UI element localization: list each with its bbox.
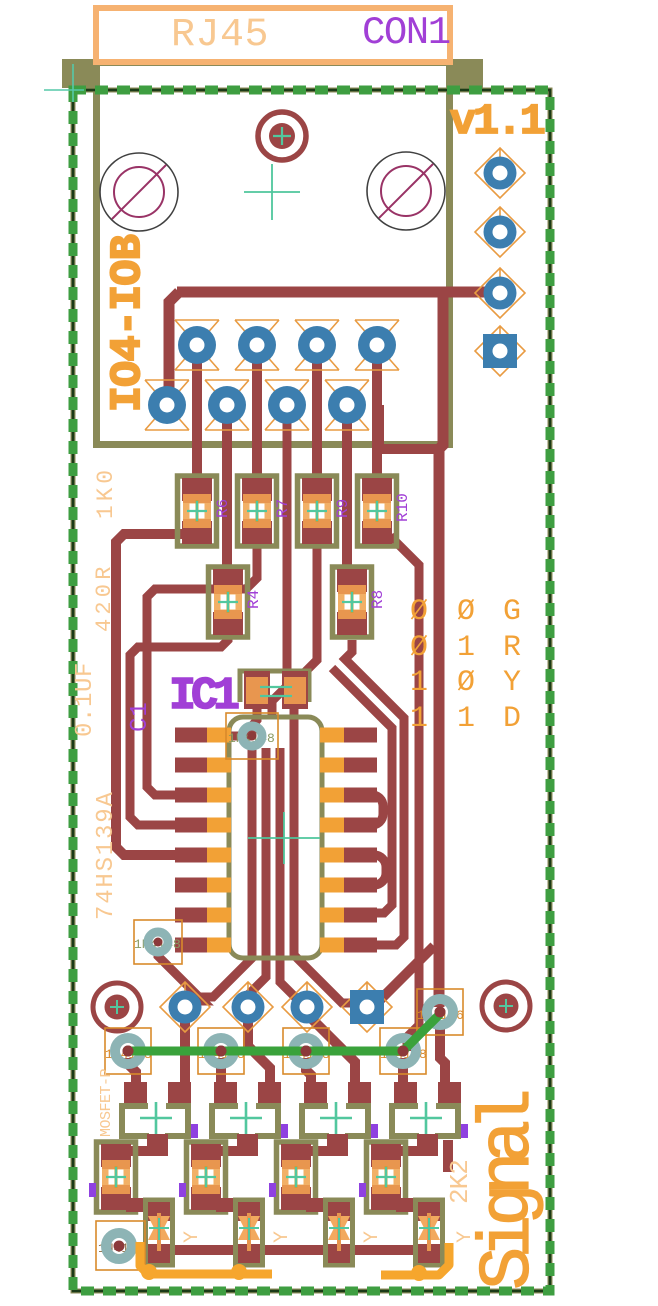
truth table row 2 [410, 631, 521, 665]
IC1 pads left [175, 728, 231, 953]
diode D6 bottom left [96, 1221, 145, 1270]
connector CON1 RJ45 courtyard (orange) [96, 8, 450, 62]
mounting hole H1 [100, 153, 178, 231]
LED LED4 [416, 1200, 443, 1265]
node pad A [160, 982, 210, 1032]
node cross [244, 164, 300, 220]
node pad C [282, 982, 332, 1032]
wire pad6 to R4 [222, 405, 232, 572]
wire R9 to C1 [303, 545, 317, 674]
connector RJ45 pad 3 [295, 320, 339, 370]
svg-text:D: D [503, 702, 521, 736]
truth table row 4 [410, 702, 521, 736]
mounting hole H2 [367, 152, 445, 230]
wire Q4 stub [443, 1140, 453, 1172]
truth table row 3 [410, 666, 521, 700]
fiducial ring pad top [258, 112, 306, 160]
connector RJ45 pad 4 [355, 320, 399, 370]
svg-text:1: 1 [410, 666, 428, 700]
svg-text:R8: R8 [369, 590, 387, 609]
svg-text:C1: C1 [127, 701, 154, 732]
svg-text:R: R [503, 631, 521, 665]
wire pad to Q2 [248, 1007, 270, 1098]
header pin 3 [475, 268, 525, 318]
wire R7 to IC pin3 [147, 545, 257, 795]
node blobs on orange wire [141, 1264, 427, 1281]
wire IC U2 [350, 795, 383, 825]
wire bus to right column pad [439, 292, 443, 1007]
wire bus horizontal [177, 287, 497, 298]
wire channel A [187, 748, 252, 997]
wire R8 to IC pin7 [345, 640, 404, 945]
svg-text:R6: R6 [214, 499, 232, 518]
wire bottom layer orange 1 [140, 1242, 272, 1274]
resistor R4 [209, 567, 264, 637]
wire pad7 to R8 [342, 405, 352, 572]
connector RJ45 pad 6 [205, 380, 249, 430]
resistor R8 [333, 567, 388, 637]
resistor R3 2K2 [179, 1142, 226, 1212]
connector RJ45 pad 5 [145, 380, 189, 430]
resistor R9 [298, 476, 353, 546]
resistor R2 2K2 [89, 1142, 136, 1212]
capacitor C1 [240, 671, 309, 709]
fiducial ring pad bottom left [93, 983, 141, 1031]
wire to square pad [370, 946, 434, 999]
svg-text:Signal: Signal [468, 1091, 550, 1290]
wire donut1 to Q1 [128, 1058, 136, 1098]
transistor Q2 [212, 1082, 288, 1156]
connector RJ45 pad 2 [235, 320, 279, 370]
svg-text:R10: R10 [394, 493, 412, 522]
wire pad7b to C1 [272, 405, 287, 717]
connector RJ45 pad 8 [325, 380, 369, 430]
wire R6 to IC pin5 [116, 534, 210, 855]
svg-text:IC1: IC1 [169, 671, 239, 722]
wire C1 to via [252, 702, 257, 736]
header pin 4 [475, 326, 525, 376]
diode D3 label [283, 1028, 330, 1074]
wire pad8 jog [379, 405, 438, 449]
svg-text:Y: Y [361, 1231, 384, 1243]
svg-text:MOSFET-P: MOSFET-P [98, 1068, 115, 1137]
resistor R6 [178, 476, 233, 546]
wire pad5 to bus [169, 292, 179, 405]
diode D5 label [417, 989, 464, 1035]
node pad B [223, 982, 273, 1032]
svg-text:RJ45: RJ45 [171, 13, 269, 58]
wire to IC pin8 [332, 668, 392, 913]
svg-text:Ø: Ø [457, 666, 475, 700]
svg-text:1K0: 1K0 [93, 466, 119, 519]
svg-text:Ø: Ø [457, 595, 475, 629]
wire pad2 to R7 [252, 345, 262, 480]
svg-text:v1.1: v1.1 [450, 97, 544, 146]
resistor R7 [238, 476, 293, 546]
transistor Q4 [392, 1082, 468, 1156]
wire bottom layer orange 2 [381, 1243, 449, 1275]
LED LED3 [326, 1200, 353, 1265]
wire R10 down right [390, 536, 419, 1051]
connector CON1 RJ45 silkscreen body (olive) [62, 59, 483, 448]
wire IC pin2 stub [210, 748, 266, 765]
svg-text:R9: R9 [334, 499, 352, 518]
board outline (dashed) [73, 90, 550, 1291]
wire R11 to LED4 [396, 1198, 420, 1212]
wire green net [128, 1014, 440, 1051]
svg-text:420R: 420R [92, 562, 117, 632]
transistor Q1 [122, 1082, 198, 1156]
header pin 2 [475, 207, 525, 257]
connector RJ45 pad 7 [265, 380, 309, 430]
svg-text:0.1UF: 0.1UF [72, 662, 99, 737]
transistor Q3 [302, 1082, 378, 1156]
wire pad3 to R9 [312, 345, 322, 480]
svg-text:Y: Y [503, 666, 521, 700]
donut pad D2 [208, 1038, 234, 1064]
donut pad D5 [427, 999, 453, 1025]
header pin 1 [475, 148, 525, 198]
wire channel B [248, 748, 266, 1007]
op-amp U1 IC1 body [229, 717, 322, 958]
IC1 pads right [320, 728, 377, 953]
donut pad D1 [115, 1038, 141, 1064]
wire pad to Q1 [180, 1007, 190, 1098]
wire IC U3 [350, 855, 386, 885]
wire R2 to LED1 [126, 1198, 150, 1212]
svg-text:Ø: Ø [410, 595, 428, 629]
wire pad to Q3 [307, 1007, 355, 1098]
diode D2 label [198, 1028, 245, 1074]
donut centers over green [123, 1007, 446, 1057]
svg-text:CON1: CON1 [362, 11, 450, 55]
diode D4 label [380, 1028, 427, 1074]
svg-text:R7: R7 [274, 499, 292, 518]
wire donut5 to Q4 [440, 1020, 445, 1098]
donut pad D4 [390, 1038, 416, 1064]
wire sqpad to Q3 [362, 1007, 372, 1020]
LED LED1 [146, 1200, 173, 1265]
svg-text:Y: Y [181, 1231, 204, 1243]
via V2 [134, 920, 182, 964]
wire pad1 to R6 [192, 345, 202, 480]
svg-text:74HS139A: 74HS139A [93, 790, 120, 920]
wire pad4 to R10 [372, 345, 382, 480]
svg-text:1: 1 [457, 702, 475, 736]
svg-text:1: 1 [410, 702, 428, 736]
node pad D [342, 982, 392, 1032]
resistor R11 2K2 [359, 1142, 406, 1212]
connector RJ45 pad 1 [175, 320, 219, 370]
wire R3 to LED2 [216, 1198, 240, 1212]
resistor R5 2K2 [269, 1142, 316, 1212]
wire channel D [294, 706, 360, 1003]
wire donut2 to Q2 [216, 1058, 226, 1098]
wire top bus [116, 292, 497, 1250]
via V1 pin1 [226, 713, 278, 759]
svg-text:IO4-IOB: IO4-IOB [103, 235, 152, 412]
wire R4 to IC pin4 [130, 633, 228, 825]
truth table row 1 [410, 595, 521, 629]
svg-text:Y: Y [271, 1231, 294, 1243]
wire via to IC pin1 [218, 732, 252, 741]
svg-text:1: 1 [457, 631, 475, 665]
svg-text:G: G [503, 595, 521, 629]
svg-text:Ø: Ø [410, 631, 428, 665]
node origin cross top-left [44, 64, 84, 102]
diode D1 label [105, 1028, 152, 1074]
wire donut3 to Q3 [306, 1058, 311, 1098]
LED LED2 [236, 1200, 263, 1265]
wire via2 to pad [158, 948, 203, 1001]
wire channel C [280, 748, 302, 1004]
node IC1 center cross [248, 812, 320, 864]
resistor R10 [358, 476, 413, 546]
wire R5 to LED3 [306, 1198, 330, 1212]
fiducial ring pad bottom right [482, 982, 530, 1030]
wire donut4 to Q4 [398, 1058, 408, 1098]
donut pad D3 [293, 1038, 319, 1064]
wire LED chain [168, 1245, 438, 1255]
svg-text:R4: R4 [245, 590, 263, 609]
